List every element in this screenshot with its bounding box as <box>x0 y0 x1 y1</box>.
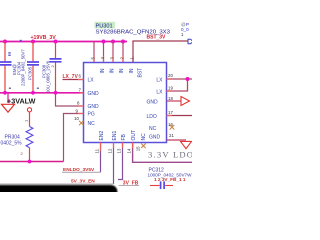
pin 15 no-connect X <box>141 144 146 149</box>
op-amp U1 : IC body PU301 <box>84 63 167 143</box>
svg-text:GND: GND <box>88 104 100 110</box>
pin numbers top <box>91 57 135 60</box>
wire pin6 LX <box>63 79 84 81</box>
pin labels bottom EN2 EN1 FB OUT NC <box>99 130 147 141</box>
wire 3V_FB underline <box>119 185 140 187</box>
svg-text:NC: NC <box>149 126 157 132</box>
capacitor PC304 labels (vertical) <box>12 49 25 86</box>
svg-text:OUT: OUT <box>131 130 137 141</box>
capacitor PC304 <box>27 42 39 93</box>
node dot <box>28 160 32 164</box>
ground right-pointing triangle <box>181 97 190 106</box>
svg-text:10: 10 <box>74 116 79 121</box>
svg-text:15: 15 <box>136 146 141 151</box>
pin 10 no-connect X <box>79 121 84 126</box>
svg-text:ENLDO_3V5V: ENLDO_3V5V <box>63 167 95 173</box>
pin mark C2 <box>20 40 22 42</box>
svg-text:19: 19 <box>168 86 173 91</box>
capacitor PC308 labels (vertical) <box>41 60 50 93</box>
svg-text:PU301: PU301 <box>96 23 113 29</box>
svg-text:PC305: PC305 <box>27 66 32 80</box>
svg-text:GND: GND <box>88 91 100 97</box>
svg-text:LX: LX <box>88 78 95 84</box>
svg-text:NC: NC <box>88 121 96 127</box>
pin labels top IN x4 BST <box>100 68 144 78</box>
svg-text:13: 13 <box>117 148 122 153</box>
svg-text:+3VALW: +3VALW <box>7 97 36 106</box>
svg-text:5V_3V_EN: 5V_3V_EN <box>71 178 95 184</box>
node junction dots on rail <box>3 40 125 44</box>
capacitor PC312 <box>150 181 173 189</box>
wire pin8 GND <box>56 93 84 106</box>
wire pin12 EN1 <box>113 143 115 185</box>
svg-text:11: 11 <box>95 148 100 153</box>
power +3VALW circle symbol <box>27 108 31 112</box>
svg-text:GND: GND <box>149 134 161 140</box>
wire from +3VALW to PR304 <box>29 112 31 127</box>
wire PR304 to PGOOD <box>29 148 31 162</box>
pin numbers bottom <box>95 146 141 154</box>
pin 16 no-connect X <box>170 125 175 130</box>
wire pin18 GND <box>167 100 182 102</box>
svg-text:LX: LX <box>156 78 163 84</box>
wire pin20 LX out <box>167 78 193 80</box>
wire pin21 GND <box>167 139 187 141</box>
svg-text:IN: IN <box>119 68 125 73</box>
wire pin14 OUT <box>133 143 192 163</box>
wire top pin drops to IC <box>94 42 123 63</box>
svg-text:0402_5%: 0402_5% <box>1 141 23 147</box>
wire pin9 PG <box>64 114 84 162</box>
resistor PR304 <box>26 127 33 148</box>
wire +19VB_3V rail <box>0 41 127 43</box>
svg-text:PG: PG <box>88 112 95 118</box>
capacitor PC303 (left edge, cut) <box>0 42 12 93</box>
wire pin19 LX jog <box>167 80 188 91</box>
svg-text:3.3V LDO 1: 3.3V LDO 1 <box>148 150 192 160</box>
svg-text:1 2 3V_FB_1 1: 1 2 3V_FB_1 1 <box>154 177 186 182</box>
svg-text:EN1: EN1 <box>112 131 118 141</box>
svg-text:FB: FB <box>121 133 127 140</box>
svg-text:10U_0805_25V6: 10U_0805_25V6 <box>46 60 51 93</box>
pin 7 stub <box>80 92 84 94</box>
pin mark C1 bottom <box>9 88 11 89</box>
svg-text:18: 18 <box>168 96 173 101</box>
wire pin11 EN2 <box>100 143 102 173</box>
svg-text:IN: IN <box>110 68 116 73</box>
wire PGOOD horizontal <box>0 161 64 163</box>
capacitor PC305 labels (vertical) <box>27 66 32 80</box>
wire pin13 FB <box>118 143 123 180</box>
ground symbol <box>7 93 9 103</box>
svg-text:14: 14 <box>127 148 132 153</box>
svg-text:20: 20 <box>168 73 173 78</box>
svg-text:SY8286BRAC_QFN20_3X3: SY8286BRAC_QFN20_3X3 <box>96 29 171 35</box>
ground down triangle <box>181 141 192 148</box>
svg-text:12: 12 <box>108 148 113 153</box>
svg-text:EN2: EN2 <box>99 131 105 141</box>
svg-text:IN: IN <box>129 68 135 73</box>
svg-text:LX: LX <box>156 90 163 96</box>
svg-text:2200P_0402_50V7: 2200P_0402_50V7 <box>21 49 26 86</box>
svg-text:NC: NC <box>141 133 147 141</box>
svg-text:IN: IN <box>100 68 106 73</box>
node dot LX <box>186 77 190 81</box>
svg-text:1: 1 <box>181 32 184 37</box>
node bus junction dots <box>3 91 57 95</box>
wire BST net <box>133 41 189 63</box>
svg-text:BST: BST <box>138 68 144 78</box>
svg-text:21: 21 <box>169 133 174 138</box>
svg-text:LDO: LDO <box>147 114 157 120</box>
wire ground bus <box>0 92 84 94</box>
wire pin17 LDO out <box>167 115 193 117</box>
svg-text:+19VB_3V: +19VB_3V <box>31 35 57 41</box>
svg-text:GND: GND <box>147 100 159 106</box>
refdes PU301 highlight <box>95 22 116 29</box>
capacitor PC308 <box>50 42 62 93</box>
svg-text:17: 17 <box>168 110 173 115</box>
off-page connector BST <box>188 39 193 44</box>
